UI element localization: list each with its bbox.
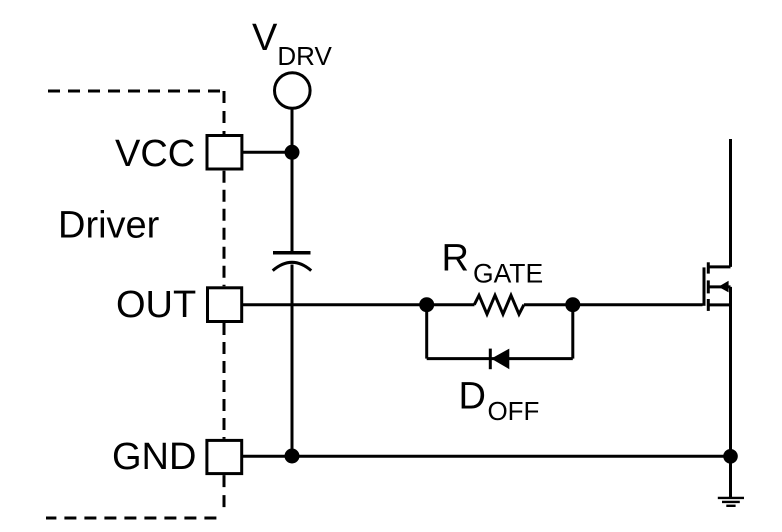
junction dot VCC/VDRV node bbox=[285, 145, 300, 160]
MOSFET Q1 gate bar bbox=[703, 267, 706, 305]
junction dot resistor left bbox=[419, 297, 434, 312]
svg-text:RGATE: RGATE bbox=[442, 237, 544, 288]
wire VCC pin to VDRV node bbox=[243, 151, 292, 154]
diode branch bottom wire bbox=[427, 357, 573, 360]
svg-text:GND: GND bbox=[112, 436, 196, 478]
driver block dashed boundary bottom bbox=[46, 517, 216, 520]
svg-text:Driver: Driver bbox=[58, 205, 160, 247]
capacitor C top plate bbox=[273, 251, 311, 255]
pin square VCC bbox=[207, 136, 242, 170]
MOSFET Q1 body tie bbox=[708, 285, 730, 288]
GND bus wire bbox=[243, 455, 731, 458]
diode branch left drop wire bbox=[425, 305, 428, 359]
ground symbol stem bbox=[729, 456, 732, 497]
ground symbol bar 1 bbox=[718, 497, 744, 499]
svg-text:VCC: VCC bbox=[115, 133, 195, 175]
ground symbol bar 3 bbox=[726, 505, 735, 507]
wire OUT pin to resistor bbox=[243, 303, 475, 306]
voltage source VDRV circle bbox=[275, 73, 311, 109]
MOSFET Q1 source contact bbox=[708, 303, 730, 306]
wire capacitor to GND bus bbox=[291, 265, 294, 457]
driver block dashed boundary right (OUT to GND) bbox=[223, 323, 226, 439]
driver block dashed boundary right (above VCC pin) bbox=[223, 91, 226, 134]
MOSFET Q1 channel segment top bbox=[707, 262, 710, 273]
ground symbol bar 2 bbox=[722, 501, 740, 503]
driver block dashed boundary right (below GND pin) bbox=[223, 475, 226, 510]
driver block dashed boundary right (VCC to OUT) bbox=[223, 171, 226, 287]
pin square GND bbox=[207, 440, 242, 473]
MOSFET Q1 body arrow bbox=[718, 281, 728, 293]
supply rail VDRV vertical bbox=[291, 108, 294, 252]
MOSFET Q1 drain lead bbox=[729, 139, 732, 267]
svg-text:OUT: OUT bbox=[116, 284, 196, 326]
wire resistor to MOSFET gate bbox=[524, 303, 703, 306]
MOSFET Q1 drain contact bbox=[708, 265, 730, 268]
resistor RGATE zigzag bbox=[474, 295, 524, 314]
driver block dashed boundary top bbox=[48, 90, 224, 93]
MOSFET Q1 source lead bbox=[729, 287, 732, 456]
diode DOFF cathode bar bbox=[489, 349, 492, 370]
pin square OUT bbox=[208, 288, 242, 322]
MOSFET Q1 channel segment middle bbox=[707, 280, 710, 293]
junction dot GND/source node bbox=[723, 449, 738, 464]
junction dot GND/cap node bbox=[285, 449, 300, 464]
junction dot resistor right bbox=[565, 297, 580, 312]
MOSFET Q1 channel segment bottom bbox=[707, 299, 710, 311]
capacitor C curved plate bbox=[273, 262, 312, 270]
diode branch right drop wire bbox=[571, 305, 574, 359]
svg-text:VDRV: VDRV bbox=[252, 17, 332, 71]
diode DOFF triangle bbox=[491, 349, 509, 370]
svg-text:DOFF: DOFF bbox=[459, 375, 540, 426]
